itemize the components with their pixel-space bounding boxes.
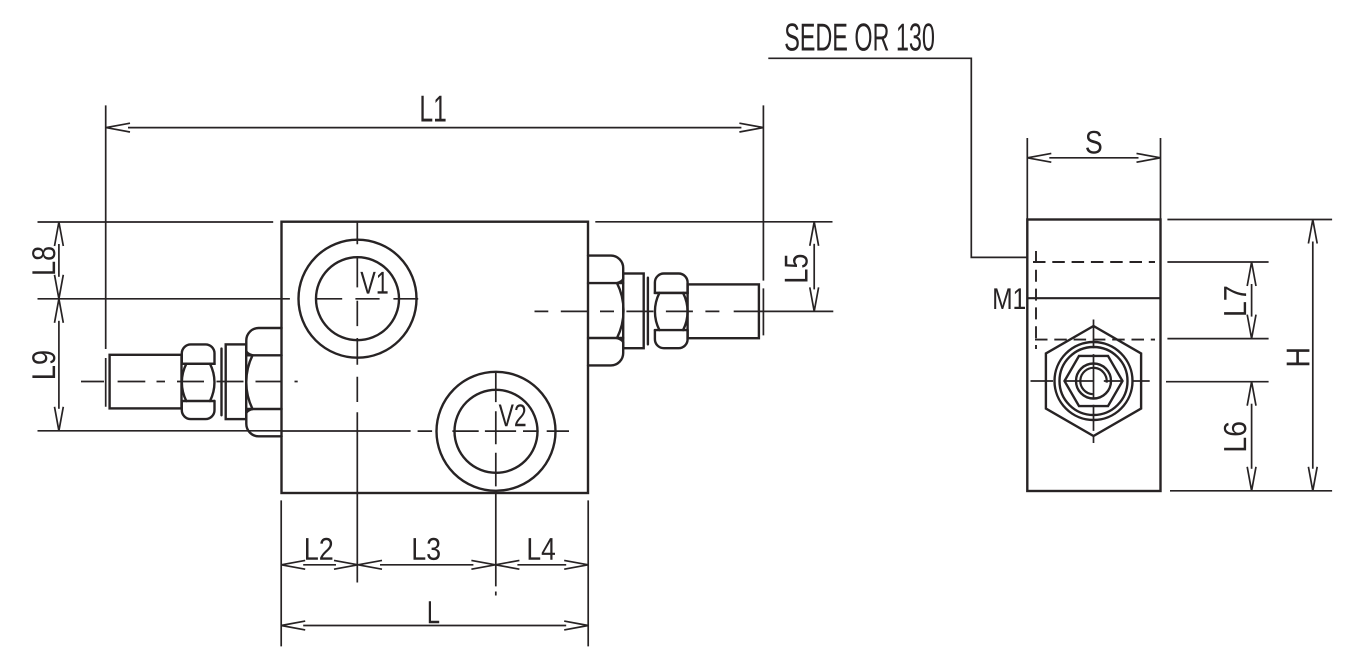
dimension L line <box>303 625 566 627</box>
dimension S line <box>1049 157 1138 159</box>
dimension S right extension line <box>1160 138 1162 220</box>
port V2 vertical centerline <box>495 371 497 596</box>
left fitting centerline <box>81 381 298 383</box>
port V2 horizontal centerline <box>418 430 569 432</box>
label L3 <box>414 538 440 560</box>
dimension L8 top extension line <box>38 221 274 223</box>
dimension L7 bottom extension line <box>1167 338 1268 340</box>
label L <box>429 601 439 623</box>
thread depth line M1 <box>1027 297 1160 299</box>
hidden cavity bottom dashed line <box>1035 339 1155 341</box>
port V2 outer circle <box>437 372 556 491</box>
hex plug horizontal centerline <box>1031 380 1150 382</box>
port V1 vertical centerline <box>356 222 358 583</box>
left fitting large hex nut <box>246 328 281 436</box>
dimension L6 top extension line (plug centerline) <box>1166 381 1269 383</box>
extension line V2 centerline left <box>282 430 411 432</box>
dimension L9 line <box>58 321 60 409</box>
dimension row left extension line <box>280 500 282 646</box>
dimension L5 top extension line <box>595 221 832 223</box>
label L1 <box>421 96 445 122</box>
dimension H line <box>1312 242 1314 469</box>
dimension L7 top extension line <box>1167 261 1268 263</box>
label V1 <box>360 272 387 294</box>
port V2 inner circle <box>455 390 538 473</box>
label L4 <box>529 538 555 560</box>
dimension S left extension line <box>1026 138 1028 220</box>
callout leader line <box>768 58 1028 257</box>
right fitting centerline <box>535 310 834 312</box>
dimension L2-L3-L4 line <box>303 564 566 566</box>
port V1 outer circle <box>299 240 417 358</box>
right fitting threaded stem <box>688 284 759 338</box>
label H <box>1287 349 1310 365</box>
label L8 <box>32 247 55 274</box>
callout text SEDE OR 130 <box>785 23 934 51</box>
dimension L7 line <box>1251 284 1253 317</box>
valve body side view outline <box>1027 220 1160 492</box>
label L9 <box>32 351 55 378</box>
hex plug vertical centerline <box>1093 320 1095 444</box>
label S <box>1086 131 1101 154</box>
left fitting washer <box>226 344 247 419</box>
dimension L1 left extension line <box>105 105 107 406</box>
hex plug outer hexagon <box>1046 326 1141 436</box>
port V1 horizontal centerline <box>316 298 418 300</box>
threaded hole circle <box>1076 364 1111 399</box>
dimension H top extension line <box>1167 219 1332 221</box>
hex plug inner hexagon <box>1065 356 1123 406</box>
thread major diameter arc <box>1080 368 1106 394</box>
extension line V1 centerline left <box>38 298 290 300</box>
right fitting small hex nut <box>655 273 688 348</box>
dimension L8 line <box>58 244 60 277</box>
label L7 <box>1224 287 1246 315</box>
dimension L1 right extension line <box>762 105 764 335</box>
hex plug chamfer circle <box>1055 342 1133 420</box>
hidden cavity left dashed line <box>1035 251 1037 349</box>
port V1 inner circle <box>316 257 399 340</box>
label L2 <box>306 538 332 560</box>
dimension H and L6 bottom extension line <box>1170 490 1332 492</box>
hidden cavity top dashed line <box>1033 261 1155 263</box>
right fitting large hex nut <box>588 256 624 366</box>
dimension L5 line <box>813 244 815 290</box>
dimension L9 bottom extension line <box>38 430 282 432</box>
label V2 <box>499 404 526 426</box>
left fitting small hex nut <box>182 344 215 419</box>
label M1 <box>994 288 1025 309</box>
valve body front view outline <box>282 222 589 493</box>
right fitting washer edge line <box>647 278 649 345</box>
left fitting threaded stem <box>110 355 182 409</box>
right fitting washer <box>623 274 644 349</box>
hex plug face circle <box>1060 347 1128 415</box>
label L5 <box>785 255 808 282</box>
dimension row right extension line <box>587 500 589 646</box>
left fitting washer edge line <box>220 349 222 416</box>
dimension L1 line <box>128 127 741 129</box>
dimension L6 line <box>1251 404 1253 469</box>
label L6 <box>1224 422 1247 450</box>
